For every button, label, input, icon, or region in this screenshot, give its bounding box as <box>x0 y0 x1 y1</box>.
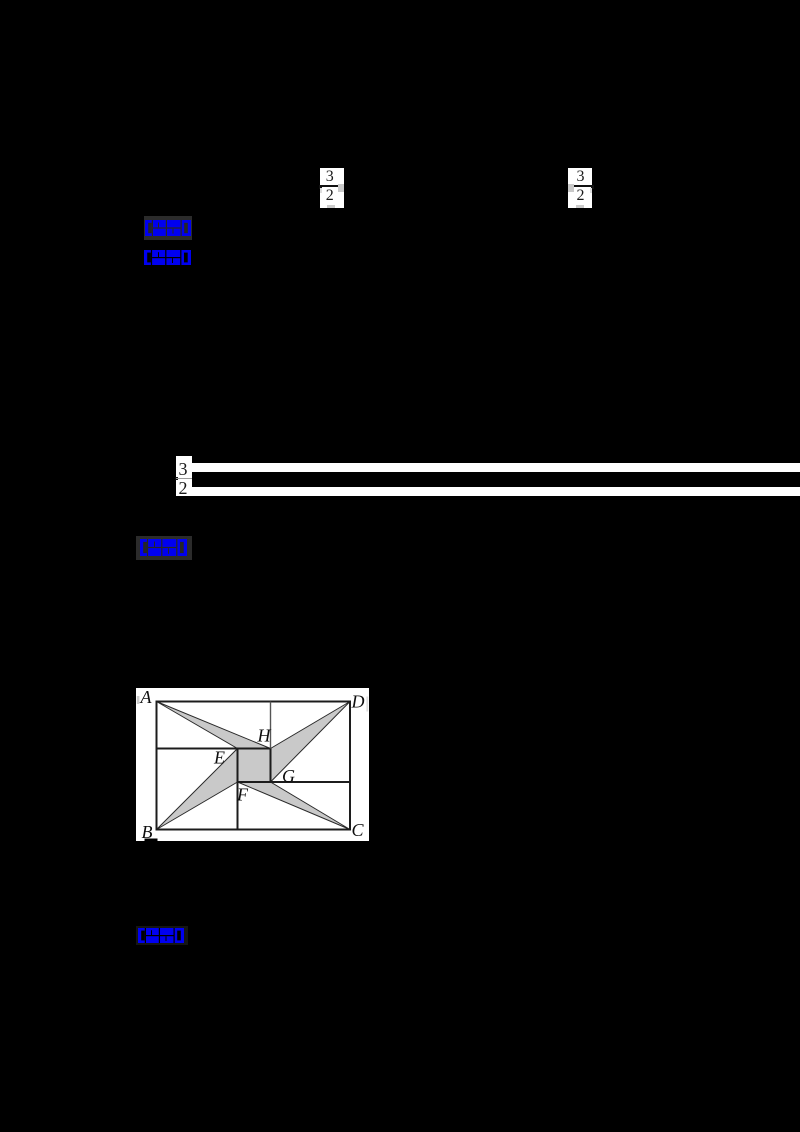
svg-text:C: C <box>351 820 364 840</box>
fraction 3/2 (third, small, with long white bars) <box>176 456 192 496</box>
blade D-H-G <box>270 701 350 782</box>
gray artifact near A <box>136 696 139 704</box>
black notch under B (image artifact) <box>144 838 157 841</box>
aux line: top edge down to G (thin upper part) <box>269 701 271 748</box>
aux line: E down to bottom edge (through F) <box>236 748 238 829</box>
svg-text:E: E <box>213 747 225 767</box>
white image background <box>136 688 369 841</box>
svg-text:A: A <box>139 688 152 707</box>
long white bar (numerator row) <box>192 463 800 472</box>
gray artifact near D <box>366 696 368 711</box>
aux line: F to right edge (through G) <box>237 781 350 783</box>
svg-text:H: H <box>256 725 271 745</box>
labels <box>139 687 364 842</box>
aux line: left edge to H (through E) <box>156 747 270 749</box>
label 1: gray highlight box <box>144 216 192 240</box>
blade B-F-E <box>156 748 237 829</box>
svg-text:G: G <box>282 766 295 786</box>
label 4: faint dark box <box>136 926 188 945</box>
label 3: gray highlight box <box>136 536 192 560</box>
label 1: blue bold text blob <box>145 220 191 236</box>
fraction 3/2 (second, right) <box>568 168 592 208</box>
svg-text:D: D <box>350 691 364 711</box>
label 4: blue bold text blob <box>138 928 184 943</box>
aux line: square right edge H to G <box>269 748 271 782</box>
geometry figure image (rectangle ABCD with pinwheel) <box>136 688 369 841</box>
long white bar (denominator row) <box>192 487 800 496</box>
central square EHGF <box>237 748 270 782</box>
rectangle ABCD border <box>156 701 350 829</box>
blade C-G-F <box>237 782 350 830</box>
label 2: blue bold text blob <box>144 250 191 265</box>
svg-text:B: B <box>141 822 152 841</box>
blade A-E-H <box>156 701 270 748</box>
svg-text:F: F <box>236 784 249 804</box>
label 3: blue bold text blob <box>140 539 187 556</box>
fraction 3/2 (first, left) <box>320 168 344 208</box>
